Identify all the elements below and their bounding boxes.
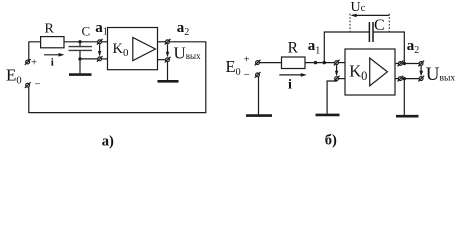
capacitor C2 <box>369 22 373 42</box>
source E0 plus terminal <box>25 59 31 65</box>
ground at source <box>246 114 272 117</box>
wire capacitor bottom stub <box>79 50 81 59</box>
svg-text:i: i <box>51 56 54 68</box>
node capacitor branch <box>323 61 326 64</box>
feedback wire loop <box>29 42 206 113</box>
current arrow i <box>279 73 307 77</box>
wire to measurement terminals <box>402 63 419 65</box>
wire plus to resistor <box>260 62 282 64</box>
input terminal bottom <box>97 56 103 62</box>
wire input stub top <box>339 62 346 64</box>
svg-text:K0: K0 <box>349 62 367 84</box>
wire lower row to amplifier input <box>80 58 98 60</box>
node at capacitor bottom <box>78 57 81 60</box>
svg-text:−: − <box>35 79 41 91</box>
node ground branch <box>403 77 406 80</box>
resistor R2 <box>282 57 306 69</box>
wire input stub top <box>102 41 108 43</box>
input terminal bottom <box>334 76 340 82</box>
svg-text:C: C <box>82 24 91 39</box>
capacitor branch to a2 <box>373 32 404 64</box>
input voltage arrow <box>98 44 101 56</box>
svg-text:+: + <box>31 57 37 69</box>
wire up to capacitor branch <box>324 32 369 63</box>
measurement terminal bottom <box>418 76 424 82</box>
output voltage arrow <box>166 44 169 57</box>
wire minus terminal to ground <box>258 77 260 115</box>
capacitor C (to ground) <box>69 47 93 51</box>
node a1 <box>314 61 317 64</box>
wire from plus terminal up to resistor level <box>29 42 41 60</box>
input voltage arrow <box>335 65 338 76</box>
svg-text:R: R <box>45 22 55 37</box>
measurement terminal top <box>418 61 424 67</box>
wire resistor to node a1 <box>64 41 98 43</box>
output stubs <box>395 63 398 65</box>
svg-text:a1: a1 <box>308 38 321 56</box>
node a2 <box>403 62 406 65</box>
svg-text:C: C <box>374 17 385 34</box>
amplifier U1 box <box>108 28 158 70</box>
svg-text:E0: E0 <box>226 57 241 78</box>
svg-text:+: + <box>244 54 250 66</box>
ground at inverting input <box>316 114 340 117</box>
svg-text:K0: K0 <box>113 41 129 59</box>
node at capacitor top <box>78 40 81 43</box>
svg-text:б): б) <box>325 133 337 149</box>
output terminal top a2 <box>165 39 171 45</box>
svg-text:Uвых: Uвых <box>426 64 456 85</box>
ground at output <box>396 79 419 117</box>
output terminal bottom <box>165 57 171 63</box>
source E0 minus terminal <box>25 82 31 88</box>
input terminal top <box>334 60 340 66</box>
svg-text:Uc: Uc <box>351 0 366 15</box>
current arrow i <box>44 53 65 57</box>
Uc dashed leaders <box>350 14 389 32</box>
svg-text:а): а) <box>102 134 114 150</box>
ground under capacitor <box>69 59 92 75</box>
svg-text:Uвых: Uвых <box>174 43 202 62</box>
wire input stub bottom <box>102 58 108 60</box>
Uc dimension line <box>351 14 390 18</box>
svg-text:R: R <box>288 39 299 56</box>
ground at output <box>158 62 179 82</box>
amplifier triangle <box>133 38 156 61</box>
wire capacitor top stub <box>79 42 81 47</box>
source E0 minus terminal <box>255 72 261 78</box>
output terminal top <box>398 61 404 67</box>
output stubs <box>158 41 166 43</box>
svg-text:a2: a2 <box>177 20 190 38</box>
svg-text:i: i <box>288 77 292 92</box>
resistor R1 <box>41 37 64 48</box>
source E0 plus terminal <box>255 60 261 66</box>
svg-text:E0: E0 <box>6 65 22 86</box>
amplifier triangle <box>370 58 388 86</box>
svg-text:a1: a1 <box>95 20 108 38</box>
output terminal bottom <box>398 76 404 82</box>
svg-text:a2: a2 <box>407 38 420 56</box>
amplifier U2 box <box>345 49 395 95</box>
output voltage arrow <box>419 66 423 76</box>
input terminal top <box>97 39 103 45</box>
svg-text:−: − <box>244 69 250 81</box>
wire resistor to a1 <box>305 62 335 64</box>
wire lower input terminal to ground <box>327 81 337 114</box>
wire input stub bottom <box>339 78 346 80</box>
